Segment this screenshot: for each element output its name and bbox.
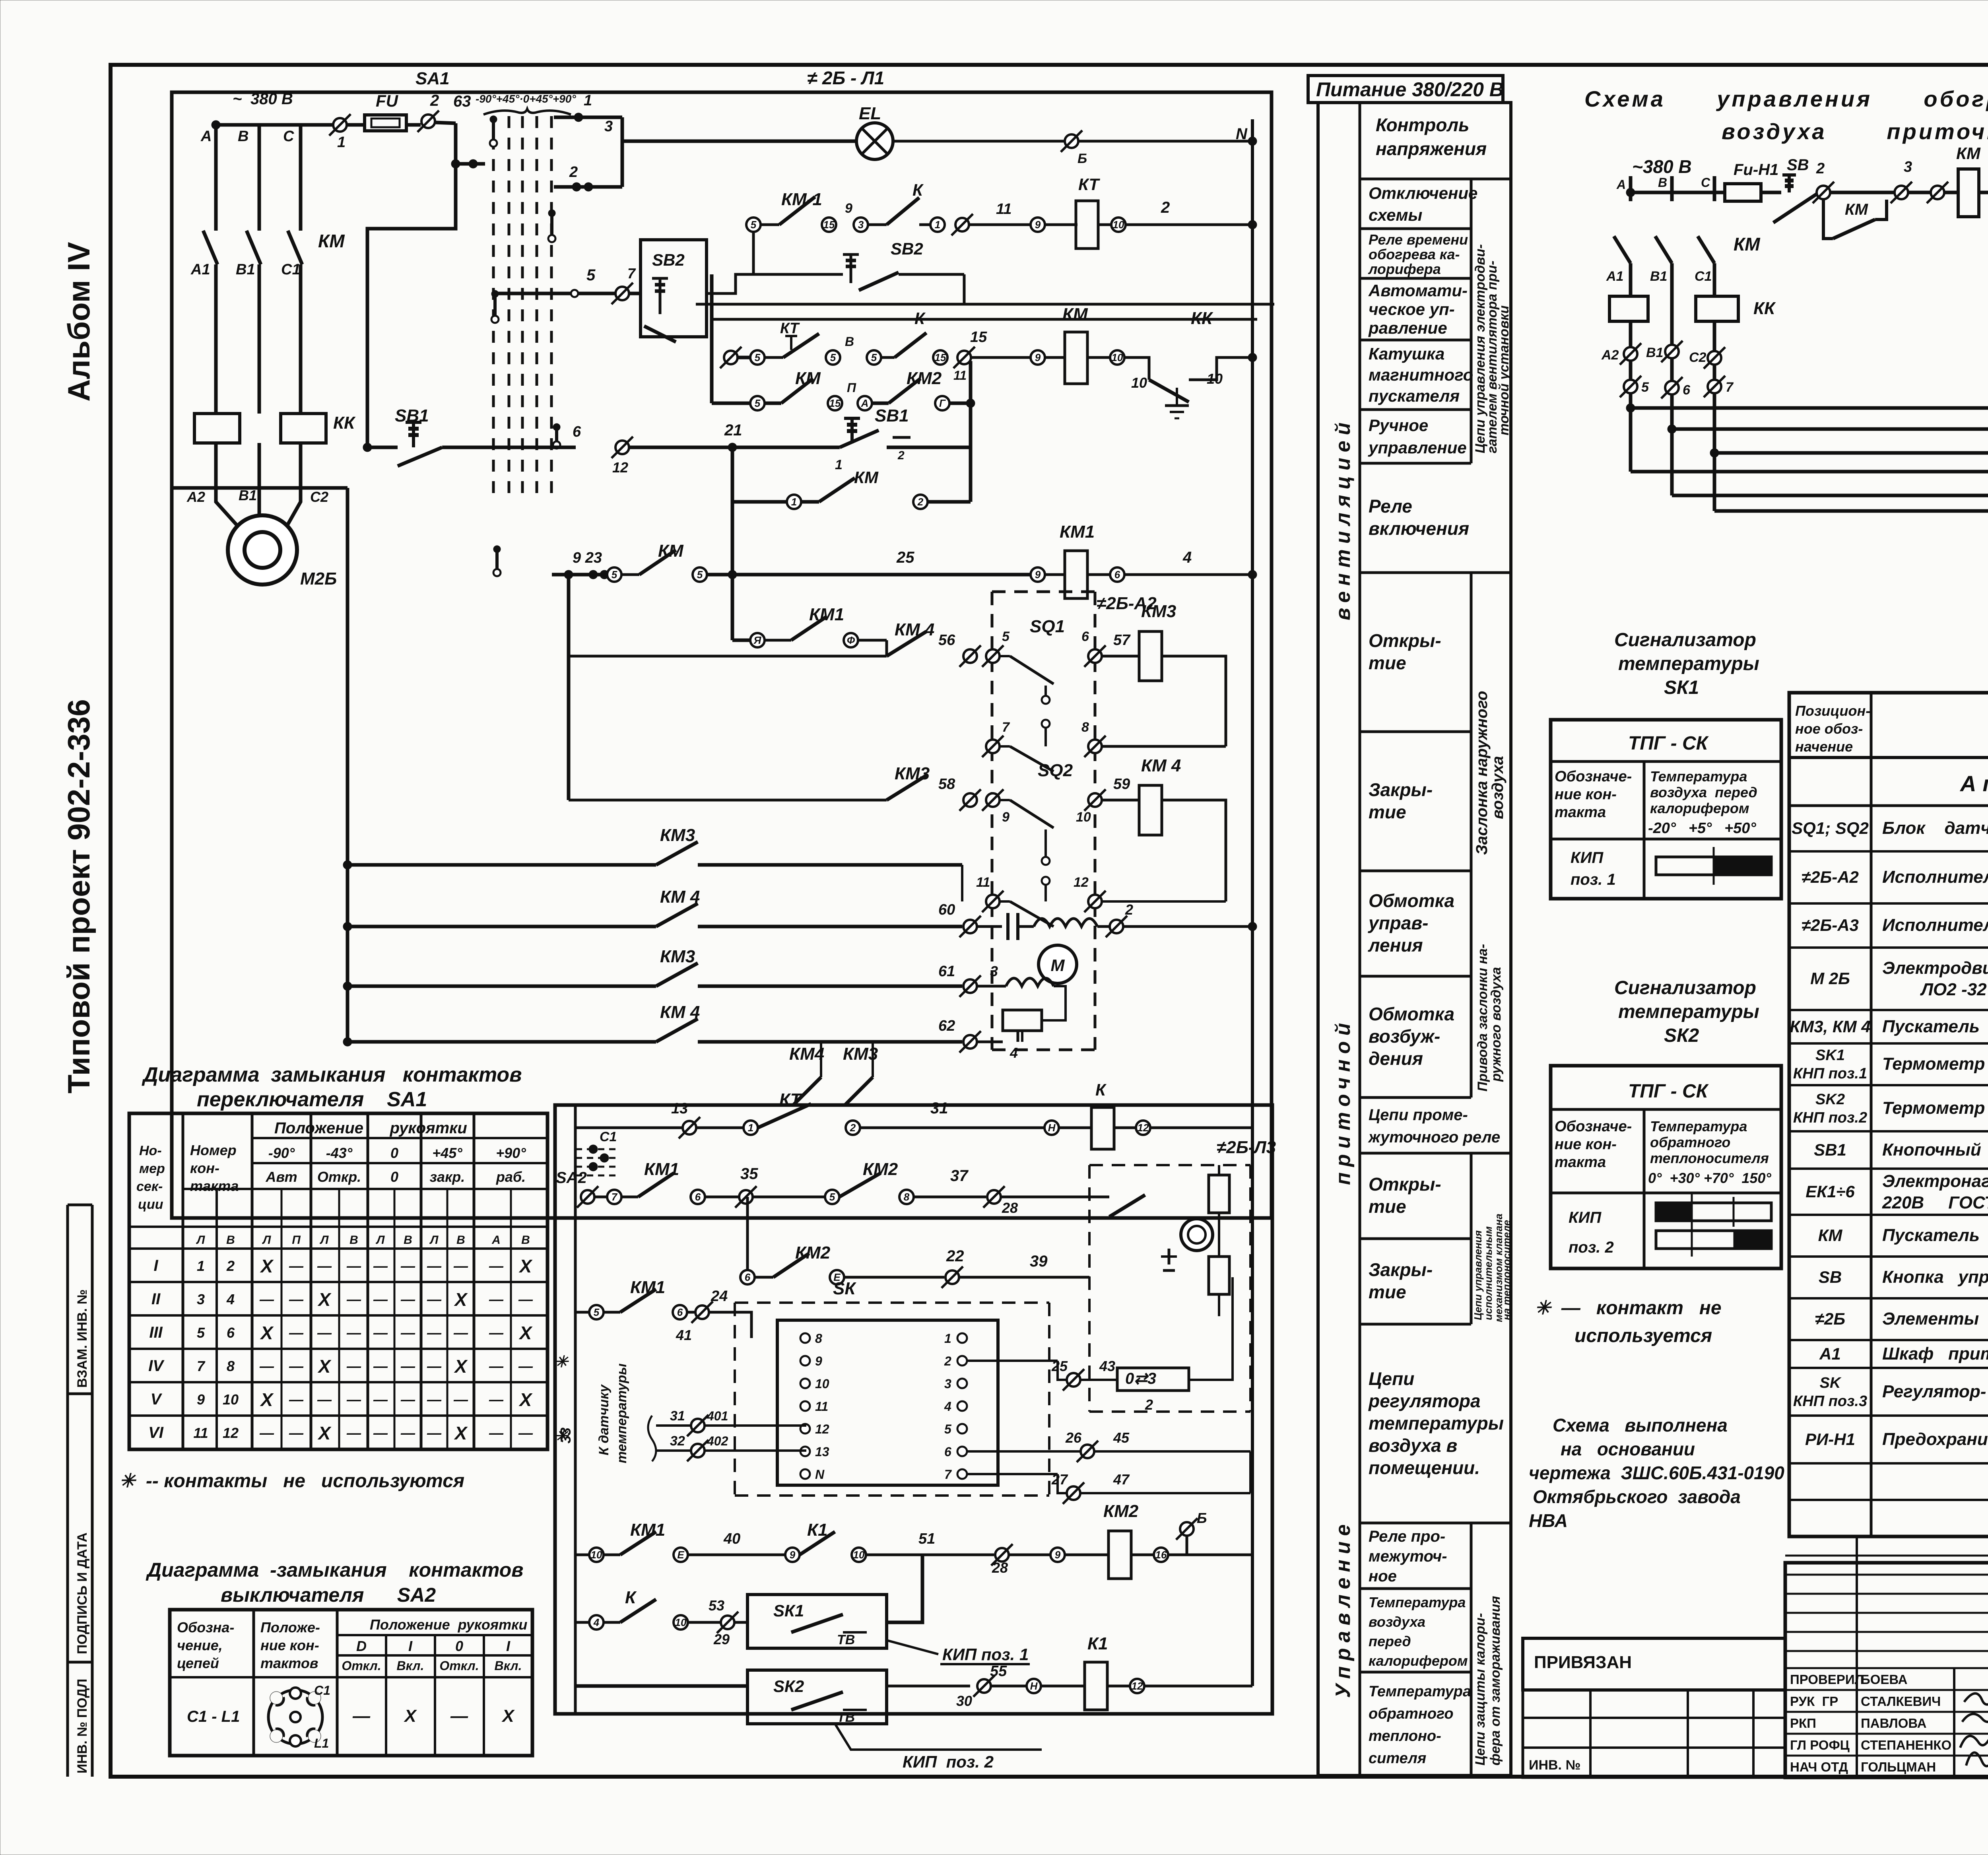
svg-text:380 В: 380 В: [250, 90, 293, 108]
svg-text:5: 5: [1002, 629, 1010, 644]
svg-text:—: —: [427, 1325, 442, 1341]
svg-text:В: В: [238, 128, 248, 145]
rung KT lower: [575, 1080, 1252, 1149]
svg-text:С1: С1: [600, 1129, 617, 1144]
svg-text:Л: Л: [196, 1233, 206, 1247]
svg-text:В: В: [349, 1233, 358, 1247]
svg-text:Положе-: Положе-: [260, 1619, 320, 1636]
wire KT rung to SB2: [752, 232, 755, 274]
svg-text:КИП: КИП: [1569, 1209, 1602, 1226]
heater boxes КК: [1609, 296, 1648, 321]
contactor coil KM2: [1109, 1531, 1131, 1579]
svg-text:мер: мер: [139, 1161, 165, 1176]
svg-text:управление: управление: [1368, 438, 1467, 457]
svg-text:Ф: Ф: [847, 634, 855, 646]
note Схема выполнена на основании: [1529, 1415, 1784, 1531]
svg-text:6: 6: [1114, 569, 1120, 581]
svg-text:Я: Я: [753, 634, 762, 646]
svg-text:Элементы управления электро: Элементы управления электродвигателем М2…: [1882, 1309, 1988, 1329]
svg-text:7: 7: [197, 1358, 206, 1374]
svg-text:—: —: [400, 1391, 415, 1408]
svg-text:—: —: [400, 1425, 415, 1441]
svg-text:В1: В1: [236, 261, 255, 278]
svg-text:ГЛ РОФЦ: ГЛ РОФЦ: [1790, 1738, 1850, 1752]
svg-text:А: А: [200, 128, 212, 145]
svg-text:4: 4: [593, 1616, 600, 1628]
svg-text:КК: КК: [333, 413, 356, 433]
callout КИП поз 2: [835, 1724, 1042, 1750]
svg-text:5: 5: [594, 1306, 600, 1318]
svg-text:X: X: [260, 1323, 274, 1343]
svg-text:—: —: [373, 1391, 388, 1408]
svg-text:чение,: чение,: [177, 1637, 223, 1653]
svg-text:Закры-: Закры-: [1369, 779, 1433, 800]
svg-text:КМ: КМ: [1734, 234, 1761, 254]
svg-text:24: 24: [711, 1288, 728, 1305]
svg-text:SК1: SК1: [1664, 677, 1699, 698]
svg-text:53: 53: [709, 1597, 724, 1614]
svg-text:—: —: [373, 1291, 388, 1307]
svg-text:чертежа ЗШС.60Б.431-0190: чертежа ЗШС.60Б.431-0190: [1529, 1463, 1784, 1483]
svg-text:—: —: [346, 1425, 361, 1441]
svg-text:В: В: [226, 1233, 235, 1247]
svg-text:КМ1: КМ1: [630, 1278, 665, 1297]
svg-text:М2Б: М2Б: [300, 569, 337, 589]
svg-text:вентиляцией: вентиляцией: [1332, 417, 1355, 620]
svg-text:Сигнализатор: Сигнализатор: [1614, 629, 1756, 651]
svg-text:—: —: [400, 1358, 415, 1374]
svg-text:ЛО2 -32 - Б , 380В; 2.2 кВ: ЛО2 -32 - Б , 380В; 2.2 кВт.: [1882, 980, 1988, 999]
SA2 rotor symbol: [268, 1690, 322, 1744]
thermo switch SK1 box: [747, 1595, 887, 1648]
svg-text:точной установки: точной установки: [1497, 305, 1512, 435]
svg-text:25: 25: [896, 549, 914, 566]
svg-text:11: 11: [976, 875, 990, 890]
svg-text:Цепи проме-: Цепи проме-: [1369, 1106, 1468, 1124]
svg-text:А1: А1: [1819, 1344, 1841, 1363]
svg-text:теплоно-: теплоно-: [1369, 1728, 1441, 1744]
svg-text:Альбом IV: Альбом IV: [61, 242, 96, 402]
left margin stamp strip: [68, 1205, 92, 1777]
svg-text:ЕК1÷6: ЕК1÷6: [1806, 1182, 1855, 1201]
svg-text:С1: С1: [281, 261, 301, 278]
svg-text:СТЕПАНЕНКО: СТЕПАНЕНКО: [1861, 1738, 1951, 1752]
svg-text:Позицион-: Позицион-: [1795, 703, 1870, 719]
svg-text:Ручное: Ручное: [1369, 416, 1428, 435]
svg-text:воздуха: воздуха: [1489, 756, 1507, 819]
svg-text:—: —: [259, 1291, 274, 1307]
svg-text:≠2Б-А2: ≠2Б-А2: [1802, 868, 1859, 886]
svg-text:КМ-1: КМ-1: [781, 190, 822, 209]
svg-text:закр.: закр.: [430, 1169, 465, 1185]
svg-text:тие: тие: [1369, 1196, 1406, 1217]
svg-text:сителя: сителя: [1369, 1750, 1426, 1767]
svg-text:-90°+45°·0+45°+90°: -90°+45°·0+45°+90°: [476, 93, 576, 105]
svg-text:Пускатель ПМЕ - 122: Пускатель ПМЕ - 122 н.э. 2.5А: [1882, 1226, 1988, 1245]
node 1 and node 2 stubs from SA1: [554, 92, 622, 191]
svg-text:—: —: [317, 1258, 332, 1274]
actuator motor rung with capacitor: [938, 901, 1257, 983]
svg-text:возбуж-: возбуж-: [1369, 1026, 1440, 1047]
svg-text:ТВ: ТВ: [837, 1632, 855, 1647]
svg-text:КТ: КТ: [779, 1090, 802, 1109]
svg-text:КМ: КМ: [1956, 144, 1981, 163]
svg-text:Откры-: Откры-: [1369, 1174, 1441, 1195]
svg-text:обратного: обратного: [1369, 1705, 1454, 1722]
svg-text:12: 12: [1074, 875, 1089, 890]
svg-text:выключателя SА2: выключателя SА2: [221, 1584, 436, 1606]
svg-text:Е: Е: [677, 1549, 684, 1561]
svg-text:3: 3: [604, 118, 613, 135]
svg-text:SА2: SА2: [556, 1169, 587, 1187]
svg-text:9: 9: [1055, 1549, 1061, 1561]
svg-text:5: 5: [830, 352, 836, 363]
svg-text:—: —: [289, 1258, 304, 1274]
svg-text:2: 2: [944, 1354, 951, 1368]
svg-text:Закры-: Закры-: [1369, 1259, 1433, 1280]
svg-text:К: К: [1095, 1080, 1107, 1099]
svg-text:SQ1; SQ2: SQ1; SQ2: [1792, 819, 1869, 838]
svg-text:—: —: [400, 1291, 415, 1307]
dashed actuator box 2Б-А3: [1089, 1138, 1276, 1412]
svg-text:НАЧ ОТД: НАЧ ОТД: [1790, 1760, 1848, 1774]
svg-text:13: 13: [815, 1445, 829, 1459]
svg-text:теплоносителя: теплоносителя: [1650, 1150, 1769, 1166]
svg-text:9: 9: [845, 201, 852, 216]
svg-text:Вкл.: Вкл.: [397, 1659, 424, 1673]
rung K SK1 KIP1: [575, 1555, 1030, 1664]
svg-text:В: В: [845, 334, 854, 349]
svg-text:КМ1: КМ1: [809, 605, 844, 624]
svg-text:Кнопочный пост управления: Кнопочный пост управления ПКЕ-212 - 2У3: [1882, 1140, 1988, 1160]
svg-text:3: 3: [858, 219, 864, 231]
svg-text:Блок датчиков БДИ-Б: Блок датчиков БДИ-Б: [1882, 818, 1988, 838]
svg-text:Электронагреватель типа Т: Электронагреватель типа ТЭН - 60Б -12.5/…: [1882, 1171, 1988, 1191]
svg-text:кон-: кон-: [190, 1160, 219, 1176]
svg-text:Обозначе-: Обозначе-: [1555, 768, 1632, 785]
svg-text:—: —: [427, 1425, 442, 1441]
relay coil K lower: [1091, 1107, 1114, 1149]
svg-text:КМ: КМ: [1818, 1226, 1843, 1245]
svg-text:Цепи: Цепи: [1369, 1368, 1414, 1389]
svg-text:8: 8: [815, 1331, 822, 1346]
svg-text:лорифера: лорифера: [1368, 261, 1441, 277]
svg-text:на основании: на основании: [1561, 1439, 1695, 1459]
svg-text:КИП: КИП: [1571, 849, 1604, 866]
svg-text:Положение рукоятки: Положение рукоятки: [370, 1616, 527, 1633]
neutral rail N left schematic: [1251, 119, 1254, 1213]
svg-text:К: К: [914, 309, 926, 328]
svg-text:Отключение: Отключение: [1369, 184, 1477, 202]
svg-text:ИНВ. №: ИНВ. №: [1529, 1758, 1580, 1773]
svg-text:1: 1: [935, 219, 940, 231]
svg-text:КМ: КМ: [1845, 201, 1869, 218]
svg-text:SА1: SА1: [415, 69, 450, 88]
svg-text:КМ 4: КМ 4: [660, 887, 700, 907]
svg-text:Термометр манометрический: Термометр манометрический ТПГ- СК: [1882, 1054, 1988, 1074]
svg-text:такта: такта: [1555, 1154, 1606, 1171]
svg-text:11: 11: [996, 201, 1011, 218]
svg-text:0: 0: [390, 1169, 398, 1185]
rung KM1 aux: [732, 605, 887, 656]
svg-text:X: X: [260, 1256, 274, 1276]
svg-text:15: 15: [970, 329, 987, 346]
svg-text:—: —: [453, 1258, 468, 1274]
svg-text:Исполнительный механизм засл: Исполнительный механизм заслонки МЭО- 4/…: [1882, 867, 1988, 887]
svg-text:КМ3: КМ3: [1141, 602, 1176, 621]
svg-text:51: 51: [918, 1531, 935, 1547]
svg-text:12: 12: [1138, 1122, 1149, 1134]
rung KM2 aux to SK: [740, 1197, 1089, 1288]
svg-text:Откл.: Откл.: [439, 1659, 479, 1673]
rung K1 KM2 coil: [575, 1501, 1252, 1579]
svg-text:7: 7: [627, 265, 636, 282]
privyazan box and grid: [1523, 1638, 1785, 1777]
svg-text:КК: КК: [1191, 309, 1213, 328]
svg-text:3: 3: [197, 1291, 205, 1307]
svg-text:0° +30° +70° 150°: 0° +30° +70° 150°: [1648, 1170, 1771, 1186]
svg-text:Термометр манометрический: Термометр манометрический ТПГ- СК: [1882, 1098, 1988, 1118]
svg-text:Реле: Реле: [1369, 496, 1412, 517]
svg-text:Температура: Температура: [1650, 768, 1747, 785]
svg-text:С2: С2: [310, 489, 328, 505]
svg-text:пускателя: пускателя: [1369, 387, 1460, 405]
svg-text:—: —: [373, 1425, 388, 1441]
svg-text:Сигнализатор: Сигнализатор: [1614, 977, 1756, 998]
svg-text:—: —: [489, 1258, 504, 1274]
svg-text:II: II: [151, 1290, 161, 1308]
SQ2 aux dots: [1042, 857, 1050, 865]
svg-text:помещении.: помещении.: [1369, 1457, 1480, 1478]
svg-text:Катушка: Катушка: [1369, 344, 1444, 363]
svg-text:✳ — контакт не: ✳ — контакт не: [1535, 1298, 1722, 1319]
svg-text:41: 41: [676, 1327, 692, 1343]
svg-text:Питание 380/220 В: Питание 380/220 В: [1316, 78, 1504, 101]
svg-text:ПАВЛОВА: ПАВЛОВА: [1861, 1716, 1926, 1731]
svg-text:КМ2: КМ2: [907, 369, 942, 388]
svg-text:Октябрьского завода: Октябрьского завода: [1533, 1486, 1741, 1507]
svg-text:1: 1: [584, 92, 592, 109]
svg-text:воздуха приточной: воздуха приточной системы.: [1722, 119, 1988, 144]
svg-text:7: 7: [1726, 380, 1734, 395]
svg-text:✳: ✳: [555, 1353, 569, 1371]
svg-text:Обмотка: Обмотка: [1369, 1004, 1454, 1024]
svg-text:калорифером: калорифером: [1650, 800, 1749, 816]
svg-text:—: —: [489, 1391, 504, 1408]
svg-text:45: 45: [1113, 1430, 1130, 1446]
svg-text:воздуха в: воздуха в: [1369, 1435, 1457, 1456]
svg-text:ПОДПИСЬ И ДАТА: ПОДПИСЬ И ДАТА: [75, 1533, 90, 1654]
svg-text:РКП: РКП: [1790, 1716, 1816, 1731]
signal box SK1 title: [1614, 629, 1759, 698]
ground under KK: [1176, 388, 1178, 406]
svg-text:2: 2: [917, 496, 924, 508]
button SB1 stop row 6: [363, 361, 971, 640]
svg-text:КМ: КМ: [318, 231, 345, 251]
setpoint box 0-3: [1117, 1368, 1189, 1391]
svg-text:КМ3: КМ3: [660, 826, 695, 845]
svg-text:Fu-Н1: Fu-Н1: [1734, 161, 1778, 179]
svg-text:29: 29: [713, 1631, 730, 1647]
svg-text:ПРОВЕРИЛ: ПРОВЕРИЛ: [1790, 1672, 1864, 1687]
svg-text:воздуха: воздуха: [1369, 1614, 1425, 1630]
svg-text:РУК ГР: РУК ГР: [1790, 1694, 1838, 1709]
svg-text:SВ1: SВ1: [875, 406, 909, 425]
svg-text:Авт: Авт: [265, 1169, 297, 1185]
svg-text:X: X: [317, 1423, 332, 1443]
svg-text:12: 12: [223, 1425, 239, 1441]
svg-text:401: 401: [707, 1409, 728, 1423]
svg-text:5: 5: [697, 569, 703, 581]
switch SA2 cluster: [556, 1129, 620, 1208]
svg-text:27: 27: [1051, 1471, 1068, 1488]
diagram table SA1 title: [142, 1063, 522, 1111]
svg-text:В1: В1: [1650, 269, 1667, 284]
svg-text:—: —: [427, 1258, 442, 1274]
svg-text:—: —: [518, 1358, 533, 1374]
svg-text:Реле про-: Реле про-: [1369, 1528, 1445, 1545]
svg-text:Л: Л: [262, 1233, 272, 1247]
svg-text:10: 10: [815, 1377, 829, 1391]
actuator A3 internals: [1109, 1195, 1145, 1217]
svg-text:2: 2: [226, 1258, 235, 1274]
svg-text:КМ3, КМ 4: КМ3, КМ 4: [1790, 1017, 1870, 1036]
svg-text:температуры: температуры: [1369, 1413, 1504, 1433]
svg-text:I: I: [408, 1638, 413, 1654]
svg-text:М 2Б: М 2Б: [1810, 969, 1850, 988]
rung KM aux below SB1: [732, 468, 971, 509]
svg-text:КИП поз. 2: КИП поз. 2: [903, 1752, 994, 1771]
svg-text:Обозначе-: Обозначе-: [1555, 1118, 1632, 1135]
start button SB1: [629, 446, 840, 449]
svg-text:5: 5: [755, 352, 761, 363]
svg-text:6: 6: [227, 1325, 235, 1341]
svg-text:—: —: [427, 1291, 442, 1307]
fuse FU row: [216, 91, 485, 447]
svg-text:10: 10: [1113, 219, 1124, 231]
svg-text:X: X: [317, 1289, 332, 1310]
svg-text:≠ 2Б - Л1: ≠ 2Б - Л1: [807, 68, 884, 88]
svg-text:X: X: [454, 1289, 468, 1310]
svg-text:SВ2: SВ2: [652, 251, 685, 269]
SK outgoing wires to regulator: [967, 1277, 1250, 1504]
svg-text:9: 9: [1035, 219, 1041, 231]
svg-text:приточной: приточной: [1332, 1018, 1355, 1185]
svg-text:тие: тие: [1369, 1282, 1406, 1302]
svg-text:Температура: Температура: [1369, 1683, 1471, 1700]
SQ1 aux dots: [1042, 696, 1050, 704]
svg-text:КНП поз.2: КНП поз.2: [1793, 1109, 1867, 1126]
svg-text:9: 9: [197, 1391, 205, 1408]
svg-text:9: 9: [815, 1354, 822, 1368]
svg-text:ние кон-: ние кон-: [260, 1637, 319, 1653]
riser down to SQ rungs: [567, 575, 571, 656]
svg-text:10: 10: [223, 1391, 239, 1408]
svg-text:220В ГОСТ 132 68 - 67: 220В ГОСТ 132 68 - 67: [1882, 1193, 1988, 1212]
svg-text:В1: В1: [1646, 345, 1663, 360]
svg-text:10: 10: [591, 1549, 602, 1561]
svg-text:-20° +5° +50°: -20° +5° +50°: [1648, 820, 1756, 837]
long bus line y803: [710, 318, 1257, 321]
svg-text:Н: Н: [1048, 1122, 1056, 1134]
contactor coil KM4: [1139, 785, 1162, 835]
svg-text:IV: IV: [148, 1357, 165, 1375]
svg-text:сек-: сек-: [136, 1179, 163, 1194]
svg-text:35: 35: [740, 1165, 758, 1183]
svg-text:КИП поз. 1: КИП поз. 1: [942, 1645, 1029, 1664]
svg-text:37: 37: [950, 1167, 969, 1185]
svg-text:КМ3: КМ3: [660, 947, 695, 966]
svg-text:—: —: [259, 1358, 274, 1374]
svg-text:Г: Г: [939, 397, 946, 409]
svg-text:В: В: [456, 1233, 465, 1247]
svg-text:Автомати-: Автомати-: [1368, 281, 1468, 300]
svg-text:7: 7: [1002, 720, 1010, 735]
three phase contactor branch top right: [1601, 234, 1988, 511]
svg-text:обогрева ка-: обогрева ка-: [1369, 246, 1460, 262]
rung SQ1 aux 7 8: [982, 720, 1226, 771]
svg-text:А: А: [491, 1233, 501, 1247]
contactor coil KM1: [1065, 551, 1087, 598]
svg-text:Шкаф приточной системы: Шкаф приточной системы ШР 1116 - 69: [1882, 1344, 1988, 1364]
svg-text:К датчику: К датчику: [596, 1384, 612, 1455]
signal box SK1 table ТПГ-СК: [1551, 720, 1781, 899]
svg-text:используется: используется: [1574, 1325, 1712, 1346]
svg-text:Откр.: Откр.: [317, 1169, 361, 1185]
svg-text:8: 8: [227, 1358, 235, 1374]
svg-text:X: X: [501, 1706, 515, 1726]
svg-text:Б: Б: [1077, 151, 1087, 166]
svg-text:8: 8: [904, 1191, 910, 1203]
svg-text:Регулятор- температуры: Регулятор- температуры ПТРП -04: [1882, 1382, 1988, 1401]
contactor coil KM3: [1139, 631, 1162, 681]
svg-text:КМ: КМ: [854, 468, 879, 487]
svg-text:—: —: [352, 1706, 371, 1726]
svg-text:А2: А2: [1601, 348, 1619, 363]
actuator excitation rung: [938, 963, 1066, 1010]
svg-text:3: 3: [1904, 159, 1912, 175]
svg-text:—: —: [373, 1325, 388, 1341]
motor М2Б: [216, 491, 237, 526]
rung KM1 coil: [552, 522, 1257, 656]
svg-text:Но-: Но-: [139, 1143, 162, 1158]
svg-text:А1: А1: [1606, 269, 1623, 284]
signal box SK2 table ТПГ-СК: [1551, 1066, 1781, 1268]
svg-text:61: 61: [938, 963, 955, 980]
svg-text:2: 2: [897, 449, 905, 462]
svg-text:температуры: температуры: [614, 1364, 629, 1463]
svg-text:4: 4: [1010, 1045, 1018, 1061]
left margin rotated album text: [61, 242, 96, 1094]
svg-text:6: 6: [745, 1271, 751, 1283]
svg-text:поз. 1: поз. 1: [1571, 871, 1616, 888]
svg-text:регулятора: регулятора: [1368, 1391, 1481, 1411]
svg-text:Исполнительный механизм кла: Исполнительный механизм клапана ПР-1М: [1882, 915, 1988, 935]
svg-text:Б: Б: [1197, 1510, 1207, 1526]
time relay coil KT: [1076, 201, 1098, 249]
svg-text:1: 1: [337, 134, 346, 151]
temperature regulator SK dashed box: [735, 1279, 1049, 1496]
svg-text:12: 12: [815, 1422, 829, 1436]
svg-text:—: —: [489, 1358, 504, 1374]
svg-text:III: III: [149, 1324, 163, 1341]
svg-text:≠2Б-Л3: ≠2Б-Л3: [1217, 1138, 1276, 1157]
relay KT rung: [746, 175, 1257, 274]
svg-text:11: 11: [193, 1425, 208, 1441]
svg-text:Управление: Управление: [1332, 1519, 1355, 1698]
svg-text:5: 5: [829, 1191, 835, 1203]
svg-text:—: —: [317, 1325, 332, 1341]
